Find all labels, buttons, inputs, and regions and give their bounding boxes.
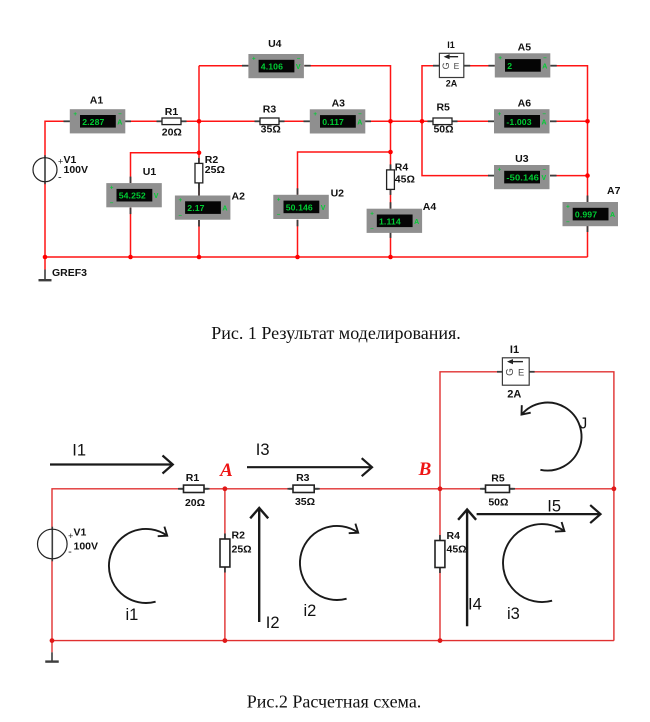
svg-text:+: + bbox=[313, 111, 317, 118]
svg-text:2.287: 2.287 bbox=[82, 117, 104, 127]
wire fig2 main wire bbox=[52, 489, 614, 530]
ammeter A7 body bbox=[563, 202, 619, 226]
svg-text:+: + bbox=[58, 157, 63, 167]
current source I1 body bbox=[439, 53, 463, 77]
svg-text:A3: A3 bbox=[332, 97, 346, 109]
svg-text:U1: U1 bbox=[143, 166, 157, 178]
svg-text:50Ω: 50Ω bbox=[433, 124, 453, 136]
wire node B column lower bbox=[390, 189, 392, 209]
svg-text:45Ω: 45Ω bbox=[447, 544, 467, 556]
svg-text:+: + bbox=[370, 210, 374, 217]
svg-text:V: V bbox=[154, 193, 159, 200]
svg-text:100V: 100V bbox=[64, 164, 89, 176]
svg-text:2A: 2A bbox=[507, 389, 521, 401]
wire node A column to U4 branch bbox=[199, 65, 248, 67]
svg-text:R4: R4 bbox=[395, 161, 409, 173]
wire V1 to A1 (top left riser and main) bbox=[45, 121, 70, 157]
wire R2 to A2 bbox=[198, 183, 200, 196]
svg-text:Рис. 1 Результат моделирования: Рис. 1 Результат моделирования. bbox=[211, 323, 460, 343]
svg-text:0.997: 0.997 bbox=[575, 210, 597, 220]
svg-text:54.252: 54.252 bbox=[119, 191, 146, 201]
svg-text:i1: i1 bbox=[126, 606, 139, 624]
svg-text:50Ω: 50Ω bbox=[488, 497, 508, 509]
svg-text:35Ω: 35Ω bbox=[261, 124, 281, 136]
current arrow I2 branch current bbox=[250, 508, 268, 622]
svg-text:4.106: 4.106 bbox=[261, 62, 283, 72]
svg-text:A7: A7 bbox=[607, 185, 621, 197]
wire fig2 node B to I1 riser bbox=[440, 372, 497, 489]
svg-text:E: E bbox=[518, 368, 524, 378]
junction fig2 node B bus bbox=[438, 638, 443, 643]
svg-text:A5: A5 bbox=[518, 42, 532, 54]
svg-text:-50.146: -50.146 bbox=[506, 173, 539, 183]
svg-text:-: - bbox=[68, 546, 72, 558]
svg-text:25Ω: 25Ω bbox=[205, 164, 225, 176]
wire A3 to R5 through node B column bbox=[365, 120, 434, 122]
voltage source V1 bbox=[33, 155, 63, 184]
resistor R3 body bbox=[255, 118, 285, 125]
junction ground tap bbox=[43, 255, 48, 260]
svg-text:U4: U4 bbox=[268, 38, 282, 50]
svg-text:R4: R4 bbox=[447, 530, 461, 542]
svg-text:–: – bbox=[179, 212, 183, 219]
svg-text:A: A bbox=[222, 206, 227, 213]
voltmeter U3 body bbox=[494, 165, 550, 189]
wire A5 to right column bbox=[550, 66, 587, 202]
svg-text:I4: I4 bbox=[468, 596, 482, 614]
ammeter A5 body bbox=[495, 53, 551, 77]
svg-text:A: A bbox=[357, 119, 362, 126]
junction U1 bus bbox=[128, 255, 133, 260]
ammeter A4 body bbox=[367, 209, 423, 233]
svg-text:A: A bbox=[542, 119, 547, 126]
svg-text:+: + bbox=[179, 197, 183, 204]
svg-text:-1.003: -1.003 bbox=[506, 117, 531, 127]
svg-text:I5: I5 bbox=[547, 497, 561, 515]
loop arrow J bbox=[522, 403, 582, 471]
wire A2 to bottom bus bbox=[198, 220, 200, 257]
resistor R1 body bbox=[157, 118, 187, 125]
junction fig2 ground tap bbox=[50, 638, 55, 643]
junction node A to U1 branch bbox=[197, 151, 202, 156]
svg-text:–: – bbox=[118, 110, 122, 117]
svg-text:A: A bbox=[117, 119, 122, 126]
svg-text:2A: 2A bbox=[446, 79, 458, 89]
wire R1 to R3 through node A column bbox=[181, 120, 260, 122]
svg-text:0.117: 0.117 bbox=[322, 117, 344, 127]
wire A6 to right column bbox=[550, 120, 588, 122]
svg-text:R2: R2 bbox=[232, 530, 246, 542]
junction fig2 right column main bbox=[612, 486, 617, 491]
wire I1 left branch to node B area bbox=[422, 66, 489, 176]
wire fig2 V1 to bus bbox=[51, 559, 53, 652]
loop arrow i3 bbox=[503, 522, 564, 602]
wire U2 to bottom bus bbox=[297, 220, 299, 257]
svg-text:–: – bbox=[110, 199, 114, 206]
svg-text:+: + bbox=[498, 167, 502, 174]
resistor R2f2 body bbox=[220, 534, 230, 573]
svg-text:–: – bbox=[358, 111, 362, 118]
voltage source V1 bbox=[38, 527, 74, 562]
loop arrow i2 bbox=[300, 524, 358, 600]
junction A2 bus bbox=[197, 255, 202, 260]
resistor R4 body bbox=[387, 164, 395, 195]
svg-text:–: – bbox=[543, 55, 547, 62]
wire U1 branch bbox=[131, 153, 200, 183]
wire U2 branch bbox=[298, 152, 391, 195]
svg-text:A1: A1 bbox=[90, 95, 104, 107]
svg-text:+: + bbox=[277, 196, 281, 203]
junction node B main bbox=[388, 119, 393, 124]
svg-text:–: – bbox=[370, 225, 374, 232]
junction fig2 node A bus bbox=[223, 638, 228, 643]
svg-text:20Ω: 20Ω bbox=[162, 126, 182, 138]
svg-text:2.17: 2.17 bbox=[187, 203, 204, 213]
svg-text:25Ω: 25Ω bbox=[232, 544, 252, 556]
svg-text:+: + bbox=[498, 111, 502, 118]
svg-text:V1: V1 bbox=[74, 527, 87, 539]
current arrow I3 branch current bbox=[247, 458, 372, 476]
wire fig2 I1 to right column bbox=[535, 372, 614, 641]
resistor R5 body bbox=[428, 118, 458, 125]
svg-text:U2: U2 bbox=[331, 188, 345, 200]
svg-text:R1: R1 bbox=[186, 472, 200, 484]
resistor R3f2 body bbox=[288, 485, 320, 492]
junction node B to U2 branch bbox=[388, 150, 393, 155]
svg-text:R3: R3 bbox=[263, 103, 277, 115]
wire A7 to bottom bus bbox=[587, 226, 589, 258]
loop arrow i1 bbox=[109, 527, 167, 603]
wire fig2 node A column bbox=[224, 489, 226, 641]
svg-text:1.114: 1.114 bbox=[379, 216, 401, 226]
svg-text:J: J bbox=[580, 416, 588, 433]
wire U4 to node B column top bbox=[304, 66, 390, 170]
junction node A top bbox=[197, 119, 202, 124]
current source I1f2 body bbox=[502, 358, 529, 385]
svg-text:20Ω: 20Ω bbox=[185, 497, 205, 509]
wire U3 to right column bbox=[550, 175, 588, 177]
svg-text:i2: i2 bbox=[304, 602, 317, 620]
svg-text:I1: I1 bbox=[72, 441, 86, 459]
resistor R1f2 body bbox=[178, 485, 210, 492]
wire A1 to R1 bbox=[125, 120, 163, 122]
svg-text:V: V bbox=[542, 175, 547, 182]
svg-text:–: – bbox=[297, 55, 301, 62]
svg-text:–: – bbox=[277, 211, 281, 218]
resistor R4f2 body bbox=[435, 535, 445, 573]
wire R3 to A3 bbox=[279, 120, 311, 122]
current arrow I5 branch current bbox=[477, 505, 601, 523]
junction fig2 node B bbox=[438, 486, 443, 491]
svg-text:i3: i3 bbox=[507, 605, 520, 623]
svg-text:A: A bbox=[414, 219, 419, 226]
svg-text:+: + bbox=[566, 204, 570, 211]
svg-text:+: + bbox=[110, 185, 114, 192]
current arrow I1 branch current bbox=[50, 456, 173, 474]
svg-text:–: – bbox=[566, 218, 570, 225]
svg-text:–: – bbox=[543, 110, 547, 117]
ground fig2 bbox=[45, 652, 59, 661]
svg-text:+: + bbox=[498, 55, 502, 62]
svg-text:I2: I2 bbox=[266, 614, 280, 632]
terminal stubs fig1 bbox=[64, 66, 588, 238]
wire node A column vertical bbox=[198, 66, 200, 164]
wire bottom bus bbox=[45, 256, 588, 258]
wire fig2 node B column bbox=[439, 489, 441, 641]
svg-text:-: - bbox=[58, 172, 62, 184]
ammeter A1 body bbox=[70, 109, 126, 133]
svg-text:I3: I3 bbox=[256, 441, 270, 459]
junction U2 bus bbox=[295, 255, 300, 260]
wire U1 to bottom bus bbox=[130, 208, 132, 257]
ammeter A2 body bbox=[175, 196, 231, 220]
svg-text:I1: I1 bbox=[447, 40, 455, 50]
svg-text:I1: I1 bbox=[510, 344, 519, 356]
ammeter A3 body bbox=[310, 109, 366, 133]
svg-text:E: E bbox=[454, 61, 460, 71]
svg-text:–: – bbox=[543, 166, 547, 173]
svg-text:35Ω: 35Ω bbox=[295, 496, 315, 508]
svg-text:R5: R5 bbox=[491, 473, 505, 485]
svg-text:GREF3: GREF3 bbox=[52, 267, 87, 279]
svg-text:A4: A4 bbox=[423, 201, 437, 213]
wire A4 to bottom bus bbox=[390, 231, 392, 257]
svg-text:50.146: 50.146 bbox=[286, 202, 313, 212]
svg-text:A6: A6 bbox=[518, 97, 532, 109]
resistor R2 body bbox=[195, 158, 203, 189]
svg-text:45Ω: 45Ω bbox=[395, 174, 415, 186]
svg-text:B: B bbox=[418, 459, 432, 480]
voltmeter U2 body bbox=[273, 195, 329, 219]
svg-text:R1: R1 bbox=[165, 106, 179, 118]
svg-text:100V: 100V bbox=[74, 541, 99, 553]
resistor R5f2 body bbox=[480, 485, 515, 492]
voltmeter U4 body bbox=[248, 54, 304, 78]
junction right column U3 branch bbox=[585, 173, 590, 178]
junction A4 bus bbox=[388, 255, 393, 260]
svg-text:A: A bbox=[219, 460, 233, 481]
ammeter A6 body bbox=[494, 109, 550, 133]
svg-text:A: A bbox=[610, 212, 615, 219]
svg-text:G: G bbox=[441, 62, 451, 69]
svg-text:+: + bbox=[252, 56, 256, 63]
wire V1 to ground bus bbox=[44, 182, 46, 270]
wire R5 to A6 bbox=[452, 120, 494, 122]
wire I1 to A5 bbox=[464, 65, 495, 67]
junction I1 column main bbox=[420, 119, 425, 124]
fig2 resistor stubs bbox=[180, 372, 535, 489]
junction fig2 node A bbox=[223, 486, 228, 491]
svg-text:G: G bbox=[505, 368, 516, 376]
svg-text:+: + bbox=[73, 111, 77, 118]
svg-text:R5: R5 bbox=[436, 102, 450, 114]
wire fig2 bottom bus bbox=[52, 640, 614, 642]
svg-text:2: 2 bbox=[507, 61, 512, 71]
svg-text:R3: R3 bbox=[296, 472, 310, 484]
current arrow I4 branch current bbox=[458, 510, 476, 627]
svg-text:V: V bbox=[321, 205, 326, 212]
svg-text:A: A bbox=[542, 63, 547, 70]
svg-text:U3: U3 bbox=[515, 153, 529, 165]
junction right column main bbox=[585, 119, 590, 124]
svg-text:A2: A2 bbox=[232, 191, 246, 203]
svg-text:Рис.2 Расчетная схема.: Рис.2 Расчетная схема. bbox=[247, 692, 422, 712]
voltmeter U1 body bbox=[106, 183, 162, 207]
svg-text:V: V bbox=[296, 64, 301, 71]
ground GREF3 bbox=[39, 270, 52, 281]
